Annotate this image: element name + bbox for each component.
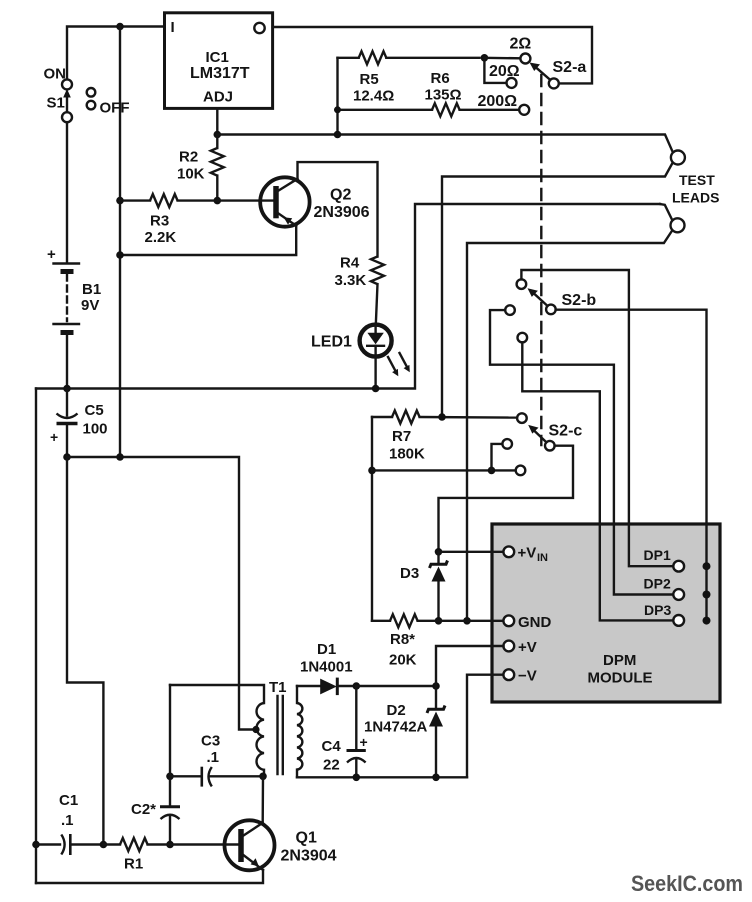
node: +Vin junction [435, 548, 443, 556]
svg-text:LED1: LED1 [311, 334, 352, 351]
svg-text:12.4Ω: 12.4Ω [353, 88, 394, 105]
svg-text:10K: 10K [177, 166, 205, 183]
wire: S2-b left contact to DP2 [490, 310, 673, 594]
svg-text:IC1: IC1 [206, 49, 229, 66]
svg-text:R2: R2 [179, 149, 198, 166]
switch S2-b bottom contact [518, 333, 528, 343]
svg-text:R7: R7 [392, 428, 411, 445]
wire: S2-c common loop to +Vin junction [439, 446, 574, 552]
wire: C5 bottom rail to transformer tap [67, 457, 254, 730]
wire: T1 center tap [252, 726, 259, 733]
node: battery on ground rail [63, 385, 71, 393]
svg-text:D1: D1 [317, 641, 336, 658]
svg-text:1N4001: 1N4001 [300, 659, 353, 676]
transistor Q1 [225, 820, 275, 870]
node: R5 right junction [481, 54, 489, 62]
wire: C3 node up to T1 primary top [169, 685, 171, 776]
switch S2-b top contact [517, 279, 527, 289]
wire: Q1 collector up to C3 node [262, 776, 265, 823]
switch S2-c bottom contact [516, 466, 526, 476]
node: R7 right junction with test lead 1 line [438, 413, 446, 421]
wire: junction down to 20ohm contact [484, 58, 506, 83]
svg-text:20K: 20K [389, 652, 417, 669]
wire: S2-c middle contact jog [492, 444, 503, 471]
switch S2-a arm arrow [536, 68, 550, 80]
capacitor C3 [170, 767, 263, 787]
svg-text:OFF: OFF [100, 100, 130, 117]
svg-text:S2-b: S2-b [562, 292, 597, 309]
resistor R3 [120, 194, 217, 207]
node: D2 top junction [432, 682, 440, 690]
resistor R7 [372, 411, 517, 424]
node: C2 bottom on R1 line [166, 841, 174, 849]
svg-text:C4: C4 [322, 738, 342, 755]
diode D1 [320, 678, 356, 696]
test lead 1 probe circle [671, 151, 685, 165]
svg-text:+: + [47, 246, 56, 263]
node: C3 right junction with Q1 collector [259, 773, 267, 781]
svg-text:C5: C5 [85, 402, 104, 419]
wire: secondary top to D1 [297, 685, 320, 687]
svg-text:T1: T1 [269, 679, 287, 696]
svg-text:D2: D2 [387, 702, 406, 719]
node: D2 bottom [432, 774, 440, 782]
transformer T1 primary winding [257, 703, 264, 770]
wire: T1 primary top lead [170, 685, 264, 703]
wire: Q2 base [217, 199, 274, 201]
node: C4 bottom [353, 774, 361, 782]
svg-text:135Ω: 135Ω [425, 87, 462, 104]
svg-text:GND: GND [518, 614, 552, 631]
wire: ADJ rail to test lead 1 [217, 135, 673, 153]
svg-text:100: 100 [83, 421, 108, 438]
resistor R8 [372, 614, 504, 627]
svg-text:1N4742A: 1N4742A [364, 719, 428, 736]
wire: Q1 emitter to bottom rail [36, 870, 263, 883]
zener diode D3 [430, 552, 448, 621]
test lead 2 probe circle [671, 218, 685, 232]
svg-text:R8*: R8* [390, 631, 415, 648]
wire: test lead 1 lower wire to mid vertical [442, 163, 673, 417]
wire: S2-b common to DP bus [556, 310, 707, 621]
LED1 [360, 325, 392, 357]
wire: rectified rail to +V branch [356, 685, 436, 687]
svg-text:Q2: Q2 [330, 187, 351, 204]
wire: T1 primary bottom stub [263, 770, 265, 777]
wire: R7 left down to S2-c contacts rail and R8 [371, 417, 373, 621]
node: Q2 emitter rail on vertical branch [116, 251, 124, 259]
svg-text:2.2K: 2.2K [145, 229, 177, 246]
wire: S2-c lower contacts rail [372, 469, 516, 471]
svg-text:+V: +V [518, 639, 537, 656]
switch S2-c arm arrow [535, 431, 547, 442]
IC1 regulator box [165, 13, 273, 109]
svg-text:ADJ: ADJ [203, 89, 233, 106]
wire: top rail from S1 to IC1 input [67, 27, 165, 81]
resistor R1 [103, 838, 239, 851]
transformer T1 core [276, 696, 278, 774]
wire: battery negative down to ground rail [66, 335, 68, 389]
node: ADJ junction [214, 131, 222, 139]
node: D1 cathode C4 junction [353, 682, 361, 690]
svg-text:200Ω: 200Ω [478, 93, 518, 110]
svg-text:DP3: DP3 [644, 602, 671, 618]
capacitor C2* [160, 776, 180, 844]
wire: S2-b top contact to DP1 [521, 270, 673, 566]
node: R2 R3 Q2 base junction [214, 197, 222, 205]
wire: test lead 2 upper diagonal [660, 204, 672, 220]
node: C1 left on wall [32, 841, 40, 849]
capacitor C1 [36, 834, 103, 855]
svg-text:S2-a: S2-a [553, 59, 587, 76]
dashed gang line S2 [540, 75, 542, 445]
zener diode D2 [427, 686, 445, 777]
svg-text:9V: 9V [81, 297, 99, 314]
switch S2-b arm arrow [535, 294, 548, 306]
contact circle 200 ohm [519, 105, 529, 115]
svg-text:−V: −V [518, 668, 537, 685]
wire: left wall down to bottom rail [35, 389, 37, 884]
capacitor C4 [347, 686, 368, 777]
svg-text:LEADS: LEADS [672, 190, 719, 206]
svg-text:R6: R6 [431, 70, 450, 87]
switch S2-c common contact [545, 441, 555, 451]
wire: S2-b bottom contact to DP3 [522, 342, 673, 620]
svg-text:3.3K: 3.3K [335, 272, 367, 289]
svg-text:DP2: DP2 [644, 576, 671, 592]
svg-text:.1: .1 [207, 749, 220, 766]
svg-text:C1: C1 [59, 792, 78, 809]
node: C5 bottom junction [63, 453, 71, 461]
svg-text:IN: IN [537, 552, 548, 564]
svg-text:LM317T: LM317T [190, 65, 250, 82]
switch S1 pole contact [62, 112, 72, 122]
svg-text:R4: R4 [340, 255, 360, 272]
wire: LED1 cathode to ground rail [374, 356, 376, 389]
svg-text:R5: R5 [360, 71, 379, 88]
wire: C5 line down with jog to C1 R1 node [67, 457, 103, 845]
svg-text:S2-c: S2-c [549, 423, 583, 440]
transformer T1 secondary winding [297, 686, 302, 777]
switch S1 ON contact [62, 79, 72, 89]
switch S2-c top contact [517, 413, 527, 423]
wire: bottom rail up to -V pin [467, 675, 502, 778]
svg-text:Q1: Q1 [296, 830, 317, 847]
module pin +Vin [503, 546, 514, 557]
LED1 emission arrows [388, 353, 410, 376]
switch S1 arm with arrow [66, 96, 68, 112]
capacitor C5 [50, 389, 78, 458]
switch S1 OFF contacts [87, 88, 96, 97]
svg-text:DPM: DPM [603, 652, 636, 669]
wire: ground rail from left wall to LED and up to test lead 2 [36, 204, 660, 389]
wire: +V branch from rectified rail to module [436, 646, 504, 686]
svg-text:MODULE: MODULE [588, 670, 653, 687]
node: R5 R6 branch on ADJ rail [334, 131, 342, 139]
wire: Q2 emitter down to left rail [120, 226, 296, 255]
resistor R4 [371, 257, 384, 325]
resistor R5 [338, 51, 480, 64]
module pin DP3 [673, 615, 684, 626]
switch S2-c middle contact [502, 439, 512, 449]
contact circle 20 ohm [507, 78, 517, 88]
wire: vertical branch from top rail down to C5 bottom rail [119, 27, 121, 458]
DPM module box [492, 524, 720, 702]
svg-text:S1: S1 [47, 95, 65, 112]
svg-text:+: + [360, 734, 368, 750]
svg-text:TEST: TEST [679, 172, 715, 188]
wire: +Vin junction to module pin [439, 551, 504, 553]
svg-text:R3: R3 [150, 213, 169, 230]
wire: R5 R6 left side down to ADJ rail [336, 58, 338, 135]
svg-text:2Ω: 2Ω [510, 36, 532, 53]
node: R6 tap [334, 106, 341, 113]
svg-text:22: 22 [323, 757, 340, 774]
node: C3 left junction [166, 773, 174, 781]
node: S2-c rail junction [368, 467, 376, 475]
node: test lead 2 line on GND rail [463, 617, 471, 625]
module pin +V [503, 641, 514, 652]
transistor Q2 [260, 177, 309, 226]
switch S2-b left contact [505, 305, 515, 315]
node: vertical branch end on C5 rail [116, 453, 124, 461]
svg-text:ON: ON [44, 66, 67, 83]
module pin DP1 [673, 561, 684, 572]
node: C1 right junction [100, 841, 108, 849]
svg-text:C2*: C2* [131, 801, 156, 818]
module pin DP2 [673, 589, 684, 600]
switch S2-a common contact [549, 78, 559, 88]
wire: IC1 output to S2-a common [273, 27, 592, 83]
svg-text:.1: .1 [61, 812, 74, 829]
IC1 output pin circle O [254, 23, 264, 33]
wire: junction to 2ohm contact [484, 57, 520, 60]
svg-text:2N3906: 2N3906 [314, 204, 370, 221]
svg-text:+: + [50, 429, 58, 445]
node: R3 left on vertical branch [116, 197, 124, 205]
svg-text:I: I [171, 19, 175, 36]
node: S2-c mid contact branch [488, 467, 496, 475]
node: LED1 on ground rail [372, 385, 380, 393]
svg-text:SeekIC.com: SeekIC.com [631, 871, 743, 896]
switch S2-b common contact [546, 305, 556, 315]
battery B1 [47, 246, 79, 333]
svg-text:20Ω: 20Ω [489, 63, 520, 80]
wire: test lead 2 lower wire to GND vertical [467, 231, 672, 621]
svg-text:B1: B1 [82, 281, 101, 298]
wire: S1 pole down to battery [66, 122, 68, 262]
svg-text:DP1: DP1 [644, 547, 671, 563]
module pin -V [503, 669, 514, 680]
svg-text:D3: D3 [400, 565, 419, 582]
contact circle 2 ohm [520, 54, 530, 64]
svg-text:2N3904: 2N3904 [281, 848, 337, 865]
wire: IC1 ADJ pin down [216, 108, 218, 134]
svg-text:+V: +V [518, 545, 537, 562]
module pin GND [503, 615, 514, 626]
svg-text:R1: R1 [124, 856, 143, 873]
svg-text:C3: C3 [201, 733, 220, 750]
node: D3 anode on GND rail [435, 617, 443, 625]
node: DP bus dots [703, 562, 711, 570]
resistor R2 [211, 135, 224, 201]
node: junction top rail to R3 branch [116, 23, 124, 31]
wire: bottom secondary rail [297, 776, 467, 778]
svg-text:180K: 180K [389, 446, 425, 463]
wire: Q2 collector up and over to R4 [298, 162, 378, 256]
resistor R6 [338, 103, 520, 116]
